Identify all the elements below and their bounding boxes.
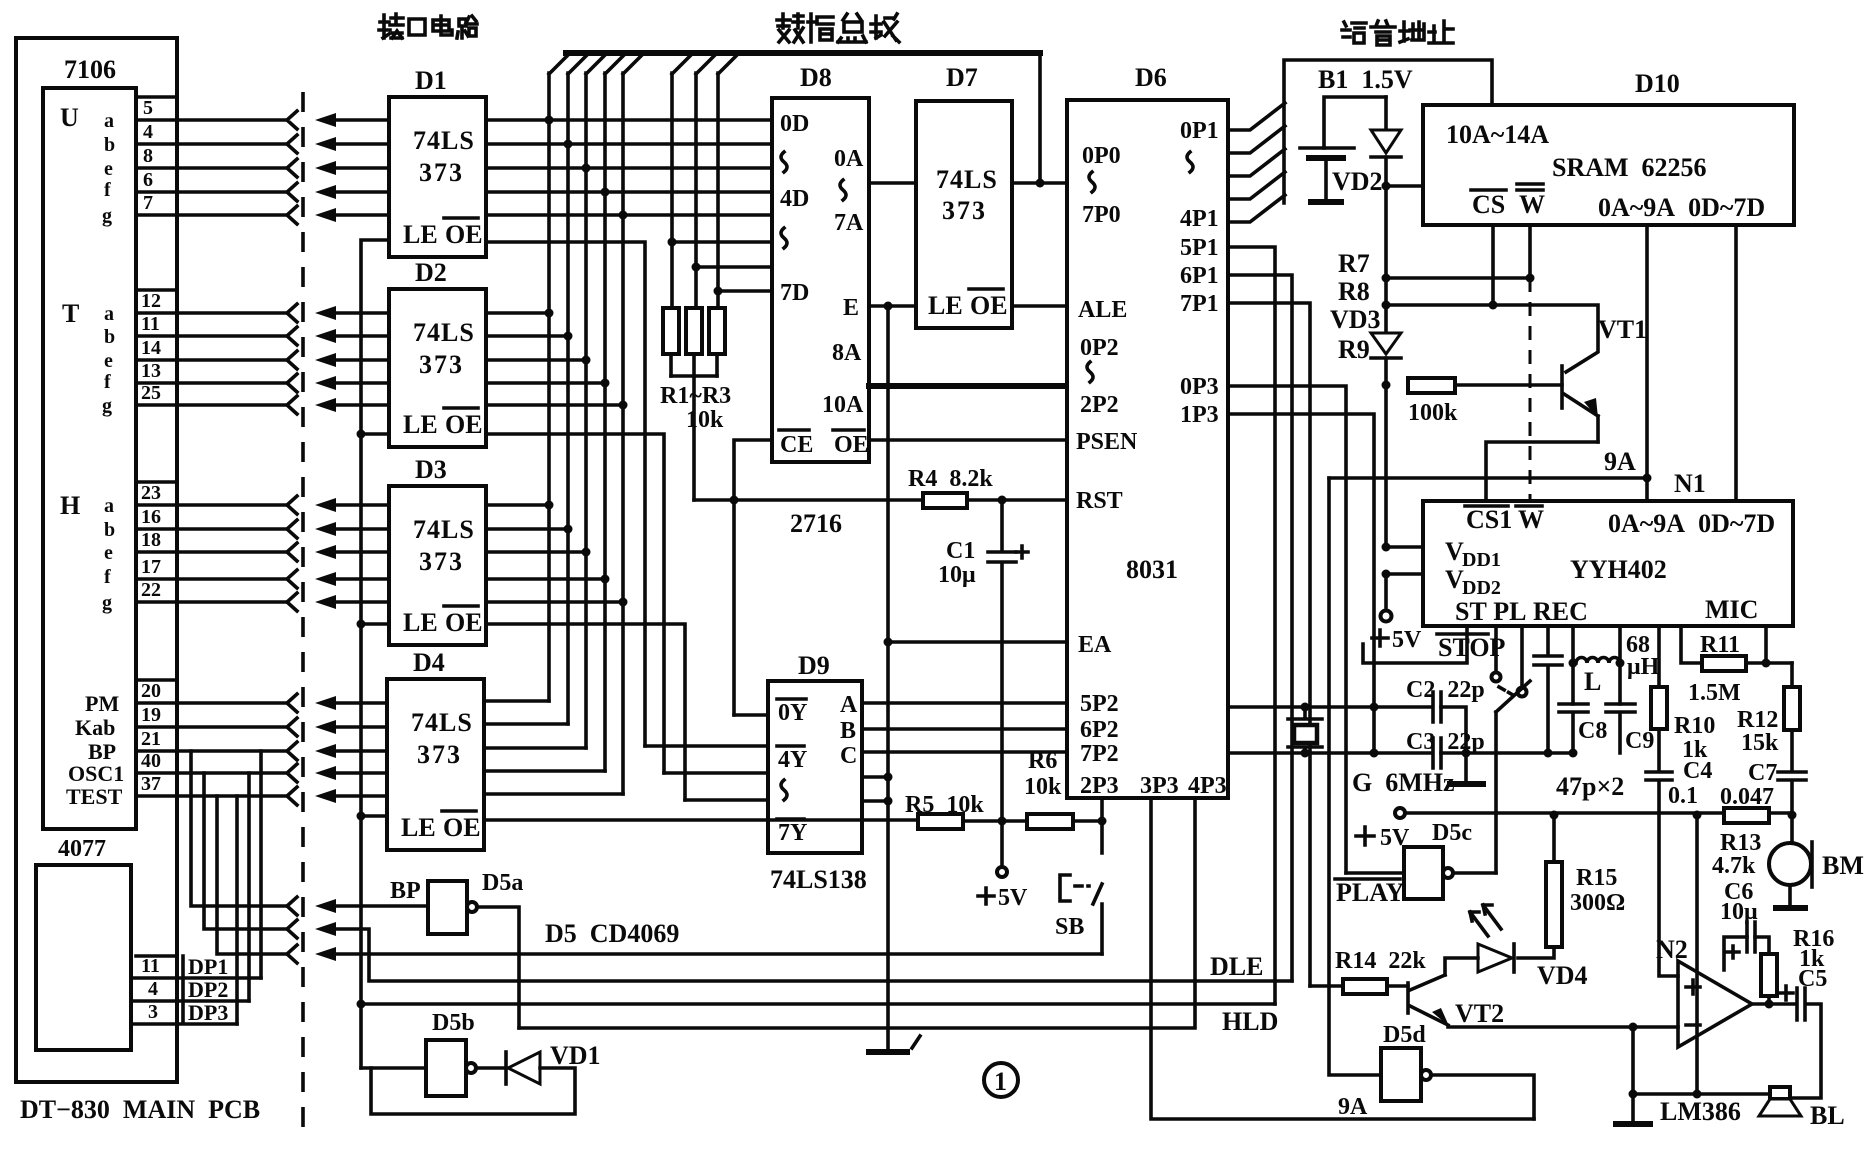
title 数据总线 (data bus) [777,14,899,42]
N1 oscillator pins with L 68uH and caps C8 C9 47px2 [1573,626,1620,704]
svg-text:DP1: DP1 [188,954,228,979]
data bus verticals 5D-7D feeding pull resistors R1-R3 [672,73,718,308]
svg-text:C2 22p: C2 22p [1406,677,1485,703]
svg-text:C9: C9 [1625,728,1654,754]
svg-text:D6: D6 [1135,63,1167,92]
svg-text:OE: OE [443,813,481,842]
svg-text:22: 22 [141,579,161,601]
svg-text:OE: OE [445,220,483,249]
svg-text:9A: 9A [1604,447,1636,476]
pushbutton SB [1093,821,1102,954]
D10 CS pin down [1491,225,1495,305]
svg-text:N2: N2 [1656,935,1688,964]
D9 enable stubs to ground net [862,777,888,801]
svg-text:D10: D10 [1635,69,1680,98]
LE chain vertical to D5b [361,240,389,1068]
svg-text:16: 16 [141,506,161,528]
D5a output down to audio row [477,907,519,1028]
transistor VT1 [1560,366,1564,408]
svg-text:C4: C4 [1683,758,1712,784]
svg-text:OE: OE [834,432,869,458]
svg-text:H: H [60,491,80,520]
circled 1 figure number [984,1063,1018,1097]
D8 OE row to D6 PSEN [869,438,1067,442]
5P1 wire down to DLE row [1228,247,1275,1004]
svg-text:YYH402: YYH402 [1570,555,1667,584]
crystal G 6MHz [1301,703,1310,712]
0P1~4P1 stubs and diagonals into address bus chute [1228,103,1285,222]
svg-text:2716: 2716 [790,509,842,538]
svg-text:ST PL REC: ST PL REC [1455,597,1588,626]
svg-text:4: 4 [143,121,153,143]
long row: DLE net [330,929,1292,981]
svg-text:CS: CS [1472,190,1505,219]
svg-text:8A: 8A [832,340,862,366]
speaker BL [1770,1087,1790,1099]
svg-text:a: a [104,303,114,325]
wire D8 0A-7A to D7 [869,181,916,185]
svg-text:5V: 5V [1392,627,1422,653]
svg-text:7106: 7106 [64,55,116,84]
dashed PCB boundary line [301,92,305,1132]
svg-text:373: 373 [419,547,464,576]
svg-text:HLD: HLD [1222,1007,1278,1036]
svg-text:ALE: ALE [1078,297,1127,323]
inverter D5d [1381,1048,1421,1101]
svg-text:a: a [104,495,114,517]
svg-text:4D: 4D [780,186,809,212]
svg-text:373: 373 [419,350,464,379]
svg-text:11: 11 [141,955,160,977]
R8 net row to VT1 collector [1386,305,1598,372]
svg-text:f: f [104,371,111,393]
bottom rail with ground [1633,1027,1770,1094]
svg-text:f: f [104,179,111,201]
svg-text:7D: 7D [780,280,809,306]
svg-text:4.7k: 4.7k [1712,853,1756,879]
svg-text:LE: LE [403,608,438,637]
svg-text:6P2: 6P2 [1080,717,1119,743]
svg-text:18: 18 [141,529,161,551]
svg-text:RST: RST [1076,488,1123,514]
ground net vertical from E row [886,306,890,1050]
opamp N2 LM386 [1678,961,1752,1047]
svg-text:7P0: 7P0 [1082,202,1121,228]
svg-text:A: A [840,692,858,718]
svg-text:4077: 4077 [58,836,106,862]
svg-text:R9: R9 [1338,335,1370,364]
XTAL rows to crystal [1228,707,1432,753]
svg-text:47p×2: 47p×2 [1556,772,1624,801]
svg-text:b: b [104,134,115,156]
svg-text:0P1: 0P1 [1180,118,1219,144]
latch output wires to data bus [484,120,772,794]
+5V terminal below R5/R6 [1000,821,1004,866]
svg-text:0P3: 0P3 [1180,374,1219,400]
7106 U pins a5,b4,e8,f6,g7 [102,97,153,227]
svg-text:VD2: VD2 [1332,167,1383,196]
svg-text:OE: OE [445,410,483,439]
svg-text:b: b [104,326,115,348]
svg-text:21: 21 [141,728,161,750]
svg-text:0Y: 0Y [778,700,807,726]
svg-text:OE: OE [970,291,1008,320]
microphone BM [1790,815,1794,843]
svg-text:BM: BM [1822,851,1864,880]
svg-text:10k: 10k [686,407,724,433]
transistor VT2 [1406,983,1410,1013]
svg-text:74LS: 74LS [413,126,475,155]
svg-text:R1~R3: R1~R3 [660,383,731,409]
9A feedback row to 3P3 [1151,798,1534,1119]
svg-text:a: a [104,110,114,132]
0P3 wire down to D5c input [1228,386,1346,873]
svg-text:g: g [102,205,112,227]
svg-text:9A: 9A [1338,1094,1368,1120]
bus drop to P0 row [1038,53,1042,183]
svg-text:R15: R15 [1576,865,1617,891]
latch D7 74LS373 [916,101,1012,328]
R15 300ohm [1552,815,1556,862]
+5V audio rail [1395,808,1405,818]
svg-text:10μ: 10μ [938,562,976,588]
7106 pins PM20 Kab19 BP21 OSC1-40 TEST37 [66,680,161,809]
svg-text:10A~14A: 10A~14A [1446,120,1549,149]
connector chevrons on dashed boundary [287,111,297,963]
svg-text:3: 3 [148,1001,158,1023]
backup supply vertical [1384,186,1388,330]
title 接口电路 (interface circuit) [379,14,477,38]
svg-text:b: b [104,519,115,541]
svg-text:1: 1 [994,1067,1007,1096]
svg-text:R5 10k: R5 10k [905,792,984,818]
svg-text:300Ω: 300Ω [1570,890,1625,916]
2P3 pin stub down to R6 [1100,798,1104,821]
7P1 wire down to R14 [1228,303,1310,986]
svg-text:E: E [843,295,859,321]
svg-text:D5a: D5a [482,870,523,896]
svg-text:7Y: 7Y [778,820,807,846]
D8 10A thick row to D6 2P2 [869,383,1067,389]
svg-text:8: 8 [143,145,153,167]
svg-text:VT2: VT2 [1455,999,1504,1028]
DT-830 main PCB outer box [16,38,177,1082]
svg-text:LE: LE [928,291,963,320]
svg-text:g: g [102,592,112,614]
svg-text:G 6MHz: G 6MHz [1352,768,1455,797]
svg-text:40: 40 [141,750,161,772]
MIC pin down [1764,626,1768,663]
diode VD2 [1384,97,1388,130]
IC 4077 box [36,865,131,1050]
svg-text:DD1: DD1 [1462,549,1501,571]
voice chip N1 YYH402 box [1423,501,1793,626]
svg-text:20: 20 [141,680,161,702]
svg-text:e: e [104,350,113,372]
svg-text:15k: 15k [1741,730,1779,756]
svg-text:DD2: DD2 [1462,577,1501,599]
svg-text:74LS: 74LS [411,708,473,737]
svg-text:7A: 7A [834,210,864,236]
inverter D5a [428,881,467,934]
data bus 0D~7D vertical [1734,225,1738,501]
7106 T pins a12,b11,e14,f13,g25 [102,290,161,417]
svg-text:6P1: 6P1 [1180,263,1219,289]
svg-text:C8: C8 [1578,718,1607,744]
svg-text:VD4: VD4 [1537,961,1588,990]
capacitor 47p near STOP [1534,626,1562,753]
signal direction arrows into main PCB [315,113,336,127]
svg-text:1P3: 1P3 [1180,402,1219,428]
junction dots on bus [545,116,554,125]
R16 1k [1755,937,1769,954]
address bus 0A~9A vertical [1645,225,1649,501]
svg-text:T: T [62,299,79,328]
R14 22k [1310,984,1343,988]
svg-text:14: 14 [141,337,161,359]
svg-text:SRAM 62256: SRAM 62256 [1552,153,1707,182]
svg-text:R11: R11 [1700,632,1740,658]
svg-text:4P3: 4P3 [1188,773,1227,799]
svg-text:DP2: DP2 [188,977,228,1002]
OE control wires from latches down to decoder D9 [486,242,685,800]
svg-text:B: B [840,718,856,744]
svg-text:25: 25 [141,382,161,404]
address chute rectangle to D10 [1284,60,1492,203]
capacitor C1 10u [988,500,1016,821]
svg-text:g: g [102,395,112,417]
svg-text:R4 8.2k: R4 8.2k [908,466,993,492]
svg-text:R10: R10 [1674,713,1715,739]
svg-text:11: 11 [141,313,160,335]
svg-text:W: W [1519,190,1545,219]
svg-text:D5 CD4069: D5 CD4069 [545,919,679,948]
svg-text:BL: BL [1810,1101,1845,1130]
dashed W line from D10 to N1 [1529,278,1532,501]
BP/DP routing ladder [191,751,287,1024]
svg-text:VD1: VD1 [550,1041,601,1070]
SRAM D10 62256 box [1423,105,1794,225]
D9 ABC rows to D6 5P2 6P2 7P2 [862,703,1067,752]
svg-text:U: U [60,103,79,132]
latch D3 74LS373 [389,486,486,645]
svg-text:CE: CE [780,432,813,458]
svg-text:5P1: 5P1 [1180,235,1219,261]
svg-text:D2: D2 [415,258,447,287]
+5V supply to VDD pins [1386,547,1423,574]
data bus top rail [566,50,1040,56]
5D-7D input stubs from bus [672,242,772,291]
svg-text:DP3: DP3 [188,1000,228,1025]
svg-text:R8: R8 [1338,277,1370,306]
bus diagonal taps [549,53,739,74]
svg-text:LE: LE [401,813,436,842]
svg-text:D5b: D5b [432,1010,475,1036]
latch D1 74LS373 [389,97,486,257]
LM386 supply vertical [1695,815,1699,1094]
D5b input wire [361,1066,426,1070]
diode VD3 [1371,333,1401,354]
svg-text:8031: 8031 [1126,555,1178,584]
svg-text:0A~9A 0D~7D: 0A~9A 0D~7D [1608,509,1775,538]
svg-text:2P3: 2P3 [1080,773,1119,799]
output coupling C5 [1752,988,1821,1098]
svg-text:f: f [104,566,111,588]
decoder D9 74LS138 box [768,681,862,853]
svg-text:N1: N1 [1674,469,1706,498]
svg-text:D3: D3 [415,455,447,484]
svg-text:R7: R7 [1338,249,1370,278]
svg-text:10A: 10A [822,392,864,418]
svg-text:373: 373 [417,740,462,769]
svg-text:4: 4 [148,978,158,1000]
svg-text:10μ: 10μ [1720,899,1758,925]
svg-text:LE: LE [403,410,438,439]
svg-text:7P2: 7P2 [1080,741,1119,767]
VD1 feedback loop [371,1068,575,1114]
svg-text:D1: D1 [415,66,447,95]
svg-text:LM386: LM386 [1660,1097,1741,1126]
long row: HLD net to 4P3 [519,798,1195,1028]
svg-text:BP: BP [390,878,421,904]
svg-text:C3 22p: C3 22p [1406,729,1485,755]
svg-text:PLAY: PLAY [1336,878,1405,907]
7106 output wires with connector chevrons [136,120,287,796]
resistor 100k to VT1 base [1408,378,1455,393]
svg-text:R14 22k: R14 22k [1335,948,1426,974]
svg-text:0P0: 0P0 [1082,143,1121,169]
svg-text:PM: PM [85,691,119,716]
svg-text:SB: SB [1055,914,1084,940]
ground at crystal [1464,753,1468,782]
svg-text:37: 37 [141,773,161,795]
svg-text:74LS: 74LS [936,165,998,194]
svg-text:L: L [1584,667,1601,696]
EA row from ground net [888,640,1067,644]
R7 net row [1386,276,1530,280]
svg-text:C: C [840,743,857,769]
svg-text:13: 13 [141,360,161,382]
7106 H pins a23,b16,e18,f17,g22 [102,482,161,614]
long row: SB net [330,952,1102,956]
svg-text:373: 373 [942,196,987,225]
svg-text:373: 373 [419,158,464,187]
svg-text:VD3: VD3 [1330,305,1381,334]
svg-text:B1 1.5V: B1 1.5V [1318,65,1413,94]
svg-text:0P2: 0P2 [1080,335,1119,361]
IC 7106 box [43,88,136,829]
svg-text:19: 19 [141,704,161,726]
svg-text:LE: LE [403,220,438,249]
svg-text:OSC1: OSC1 [68,761,124,786]
svg-text:17: 17 [141,556,161,578]
svg-text:1.5M: 1.5M [1688,680,1741,706]
svg-text:C5: C5 [1798,966,1827,992]
svg-text:0A~9A 0D~7D: 0A~9A 0D~7D [1598,193,1765,222]
svg-text:EA: EA [1078,632,1112,658]
diode VD1 [476,1066,506,1070]
svg-text:Kab: Kab [75,715,115,740]
4077 pins DP1-11 DP2-4 DP3-3 [131,954,261,1025]
D9 input rows from OE verticals [645,715,768,800]
D8 CE wire down to RST net [734,440,772,715]
MCU D6 8031 box [1067,100,1228,798]
svg-text:μH: μH [1627,654,1660,680]
svg-text:D8: D8 [800,63,832,92]
6P1 wire down to latch-enable row [1228,275,1292,981]
1P3 wire down to oscillator rows [1228,414,1374,753]
svg-text:10k: 10k [1024,774,1062,800]
wire D8 E to D7 LE and ALE [869,304,1067,308]
pin cell separators [136,97,177,680]
long row: latch LE net to 6P1 [361,1002,1275,1006]
svg-text:100k: 100k [1408,400,1458,426]
svg-text:0A: 0A [834,146,864,172]
svg-text:D7: D7 [946,63,978,92]
svg-text:C1: C1 [946,538,975,564]
svg-text:0D: 0D [780,111,809,137]
svg-text:74LS: 74LS [413,318,475,347]
svg-text:23: 23 [141,482,161,504]
svg-text:5P2: 5P2 [1080,691,1119,717]
resistor R6 10k [1027,814,1073,829]
9A row from VT1 emitter to CS1 [1486,442,1598,501]
svg-text:12: 12 [141,290,161,312]
inverter D5b [426,1040,466,1096]
svg-text:4P1: 4P1 [1180,206,1219,232]
svg-text:74LS138: 74LS138 [770,865,867,894]
svg-text:6: 6 [143,169,153,191]
svg-text:D4: D4 [413,648,445,677]
svg-text:5: 5 [143,97,153,119]
ground symbol [869,1049,907,1055]
latch D4 74LS373 [387,679,484,850]
inverter D5c [1404,847,1443,899]
svg-text:7P1: 7P1 [1180,291,1219,317]
R11 1.5M [1681,626,1702,663]
svg-text:D5c: D5c [1432,820,1472,846]
wire D7 outputs to D6 P0 [1012,181,1067,185]
R12 15k and C7 0.047 [1790,663,1794,687]
pull-up resistors R1~R3 10k [663,308,679,354]
svg-text:e: e [104,158,113,180]
svg-text:DT−830 MAIN PCB: DT−830 MAIN PCB [20,1095,260,1124]
svg-text:W: W [1518,505,1544,534]
svg-text:OE: OE [445,608,483,637]
C6 10u feedback cap [1747,922,1755,952]
VT2 emitter row to N2 [1448,1025,1678,1029]
left-to-latch wires [330,120,389,796]
svg-text:D5d: D5d [1383,1022,1426,1048]
title 语音地址 (voice address) [1342,21,1453,45]
svg-text:PSEN: PSEN [1076,429,1138,455]
svg-text:C7: C7 [1748,760,1777,786]
BP wire into D5a [330,904,428,908]
R10 1k and C4 0.1 chain [1657,626,1661,687]
R13 4.7k on rail [1724,808,1769,823]
7Y wire to R5 [484,818,918,822]
svg-text:7: 7 [143,192,153,214]
svg-text:74LS: 74LS [413,515,475,544]
svg-text:4Y: 4Y [778,747,807,773]
svg-text:3P3: 3P3 [1140,773,1179,799]
svg-text:VT1: VT1 [1598,315,1647,344]
svg-text:MIC: MIC [1705,595,1758,624]
svg-text:0.1: 0.1 [1668,783,1698,809]
svg-text:DLE: DLE [1210,952,1263,981]
data bus verticals 0D-4D [549,73,623,794]
D10 W pin down [1528,225,1532,278]
